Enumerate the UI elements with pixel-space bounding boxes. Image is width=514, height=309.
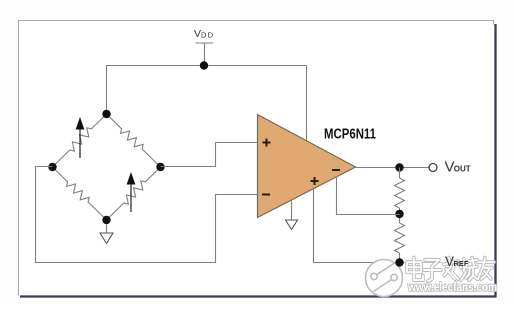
node: bridge right bbox=[156, 163, 164, 171]
node: bridge left bbox=[48, 163, 56, 171]
wire output node down to divider bbox=[399, 168, 401, 179]
node: VDD tap junction bbox=[200, 61, 208, 69]
wire op-amp output to VOUT terminal bbox=[355, 167, 429, 169]
label VOUT bbox=[445, 159, 471, 176]
resistor divider upper bbox=[395, 178, 405, 208]
op-amp feedback plus sign bbox=[311, 177, 319, 185]
svg-text:DD: DD bbox=[201, 31, 214, 40]
label VREF bbox=[445, 254, 469, 269]
wire bridge right node to op-amp +IN bbox=[161, 143, 258, 167]
resistor bridge top-left (variable) bbox=[53, 114, 107, 167]
op-amp feedback minus sign bbox=[332, 169, 340, 171]
wire lower resistor to VREF node bbox=[399, 253, 401, 263]
node: bridge top bbox=[102, 110, 110, 118]
wire VDD rail from bridge top to op-amp supply bbox=[107, 66, 307, 141]
resistor bridge top-right bbox=[107, 114, 161, 167]
op-amp +IN plus sign bbox=[263, 139, 271, 147]
wire feedback plus to VREF node bbox=[314, 189, 400, 263]
watermark chinese characters outline bbox=[407, 258, 494, 282]
resistor bridge bottom-right (variable) bbox=[107, 167, 161, 220]
wire bridge left node around bottom to op-amp -IN bbox=[36, 167, 258, 263]
node: output junction bbox=[395, 163, 403, 171]
svg-text:MCP6N11: MCP6N11 bbox=[324, 127, 376, 143]
svg-text:www.elecfans.com: www.elecfans.com bbox=[407, 282, 497, 294]
ground below bridge bbox=[100, 224, 113, 244]
op-amp -IN minus sign bbox=[262, 194, 270, 196]
node: feedback junction bbox=[395, 210, 403, 218]
svg-text:V: V bbox=[194, 28, 201, 40]
resistor bridge bottom-left bbox=[53, 167, 107, 220]
svg-text:OUT: OUT bbox=[454, 165, 471, 174]
watermark logo circle (elecfans) bbox=[366, 260, 403, 297]
wire feedback minus to divider midpoint bbox=[337, 177, 400, 215]
svg-text:REF: REF bbox=[454, 259, 469, 268]
resistor divider lower bbox=[395, 223, 405, 253]
terminal VOUT open circle bbox=[429, 164, 437, 172]
arrow of variable resistor bottom-right bbox=[127, 172, 136, 212]
node: VREF junction bbox=[395, 258, 403, 266]
wire between divider resistors bbox=[399, 208, 401, 223]
arrow of variable resistor top-left bbox=[76, 117, 85, 158]
wire VREF node to label bbox=[400, 262, 443, 264]
ground below op-amp bbox=[286, 200, 298, 230]
node: bridge bottom bbox=[102, 216, 110, 224]
power symbol VDD bbox=[194, 28, 214, 66]
op-amp U1 MCP6N11 instrumentation amplifier bbox=[258, 115, 356, 218]
